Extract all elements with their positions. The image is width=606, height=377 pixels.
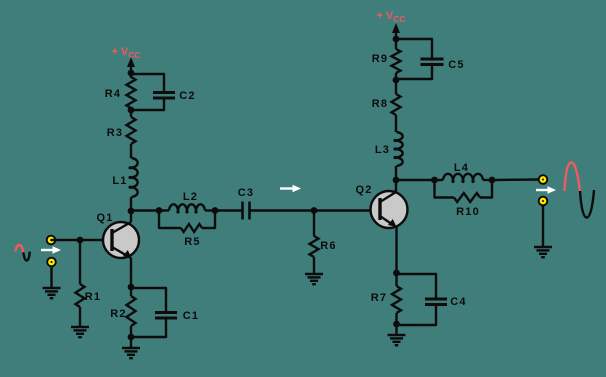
resistor R6 — [310, 236, 337, 257]
output terminal (bottom) — [539, 197, 548, 206]
inductor L1 — [112, 158, 137, 197]
resistor R1 — [76, 284, 102, 307]
node: L4-R10 right junction — [489, 177, 496, 184]
resistor R3 — [107, 117, 136, 144]
input terminal (bottom) — [47, 258, 56, 267]
node: R2 bottom junction — [128, 334, 135, 341]
inductor L2 — [169, 191, 205, 212]
wire: output lead — [492, 178, 540, 181]
wire: R5 left drop — [159, 211, 181, 229]
input terminal (top) — [47, 236, 56, 245]
wire: R2 to ground — [130, 337, 132, 348]
svg-text:R5: R5 — [184, 236, 200, 248]
node: Q2 collector junction — [393, 177, 400, 184]
wire: R6 bottom — [313, 257, 315, 274]
wire: collector node to L2 — [131, 209, 169, 211]
wire: C3 to Q2 base — [250, 209, 381, 211]
wire: C4 branch bottom — [397, 305, 437, 326]
resistor R7 — [371, 286, 401, 313]
wire: R6 top — [313, 211, 315, 237]
wire: C2 branch top — [131, 74, 164, 92]
wire: R1 bottom — [79, 307, 81, 327]
wire: L1 to collector node — [130, 197, 132, 211]
ground (output) — [534, 247, 552, 257]
wire: Q1 base lead — [51, 239, 112, 241]
svg-text:Q2: Q2 — [355, 184, 372, 196]
wire: C5 branch bottom — [396, 65, 432, 80]
resistor R2 — [110, 296, 135, 326]
node: emitter junction — [128, 284, 135, 291]
transistor Q2 — [355, 180, 407, 228]
wire: R10 left drop — [435, 180, 455, 198]
wire: R4-R3 — [130, 110, 132, 117]
capacitor C5 — [421, 59, 465, 71]
svg-text:C4: C4 — [450, 296, 466, 308]
svg-text:L1: L1 — [112, 175, 127, 187]
svg-text:Q1: Q1 — [96, 212, 113, 224]
svg-text:R1: R1 — [85, 291, 101, 303]
capacitor C4 — [425, 296, 467, 308]
node: base-R1 junction — [77, 237, 84, 244]
wire: R9-R8 — [395, 73, 397, 94]
wire: C1 branch bottom — [131, 318, 166, 337]
svg-text:R7: R7 — [371, 292, 387, 304]
svg-text:L2: L2 — [183, 191, 198, 203]
wire: R8-L3 — [395, 115, 397, 132]
node: Q2 emitter junction — [393, 270, 400, 277]
wire: lower input terminal to ground — [50, 266, 52, 288]
node: L4-R10 left junction — [431, 177, 438, 184]
wire: Q1 emitter down — [130, 258, 132, 287]
ground (input) — [43, 288, 61, 298]
svg-text:R6: R6 — [320, 240, 336, 252]
capacitor C1 — [155, 310, 199, 322]
transistor Q1 — [96, 211, 139, 258]
ground (Q1 emitter) — [122, 348, 140, 358]
svg-text:C5: C5 — [448, 59, 464, 71]
svg-text:C2: C2 — [179, 90, 195, 102]
output sine symbol — [565, 163, 595, 218]
resistor R8 — [372, 94, 401, 115]
wire: Q2 emitter down — [395, 227, 397, 273]
wire: emitter node to R2 — [130, 287, 132, 296]
node: left rail top junction — [128, 70, 135, 77]
capacitor C2 — [153, 90, 196, 102]
power label +Vcc (right) — [376, 10, 405, 24]
svg-text:R2: R2 — [110, 308, 126, 320]
svg-text:L4: L4 — [454, 162, 469, 174]
resistor R5 — [181, 224, 202, 248]
wire: C4 branch top — [397, 274, 437, 299]
ground (R1) — [71, 327, 89, 337]
output terminal (top) — [539, 175, 548, 184]
capacitor C3 — [238, 187, 254, 220]
white arrow (output signal) — [536, 186, 556, 193]
wire: R2 bottom lead — [130, 326, 132, 337]
svg-text:R9: R9 — [372, 53, 388, 65]
svg-text:R10: R10 — [456, 206, 480, 218]
power arrow (left rail) — [127, 57, 135, 78]
wire: R1 top — [79, 240, 81, 284]
wire: C2 branch bottom — [131, 98, 164, 110]
node: right rail top junction — [393, 36, 400, 43]
ground (R6) — [305, 274, 323, 284]
wire: lower output terminal to ground — [542, 205, 544, 247]
svg-text:R4: R4 — [105, 88, 121, 100]
svg-text:C1: C1 — [183, 310, 199, 322]
wire: emitter node to R7 — [395, 273, 397, 286]
power arrow (right rail) — [392, 23, 400, 49]
wire: C1 branch top — [131, 288, 166, 312]
svg-text:L3: L3 — [375, 144, 390, 156]
svg-text:R3: R3 — [107, 127, 123, 139]
node: R6 junction — [311, 207, 318, 214]
node: R9 bottom junction — [393, 77, 400, 84]
wire: C5 branch top — [396, 39, 432, 59]
node: L2-R5 left junction — [156, 207, 163, 214]
node: R4 bottom junction — [128, 107, 135, 114]
node: R7 bottom junction — [393, 321, 400, 328]
wire: R3-L1 — [130, 144, 132, 158]
ground (Q2 emitter) — [388, 335, 406, 345]
node: L2-R5 right junction — [212, 207, 219, 214]
inductor L3 — [375, 132, 403, 166]
input sine symbol — [16, 245, 30, 261]
inductor L4 — [443, 162, 483, 182]
wire: L4 to output node — [483, 179, 492, 181]
white arrow (interstage signal) — [280, 185, 301, 192]
white arrow (input signal) — [41, 246, 61, 253]
resistor R9 — [372, 49, 401, 73]
wire: R7 bottom to ground — [395, 313, 397, 335]
resistor R4 — [105, 77, 136, 108]
power label +Vcc (left) — [111, 46, 140, 60]
resistor R10 — [454, 193, 480, 218]
wire: L3 to collector junction — [395, 166, 397, 180]
wire: L2 right to C3 — [205, 209, 242, 211]
wire: R10 right rise — [480, 180, 492, 198]
svg-text:C3: C3 — [238, 187, 254, 199]
node: Q1 collector junction — [128, 208, 135, 215]
wire: collector junction to L4 — [396, 179, 443, 181]
wire: R5 right rise — [202, 211, 215, 229]
svg-text:R8: R8 — [372, 98, 388, 110]
